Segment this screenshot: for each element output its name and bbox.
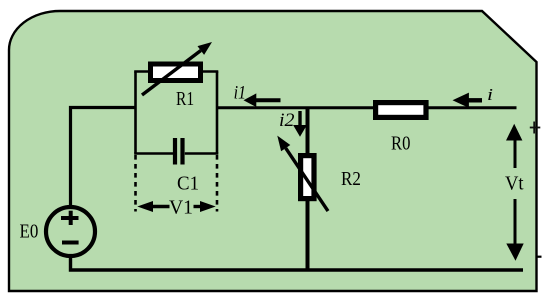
svg-text:R0: R0	[391, 132, 410, 154]
svg-text:R1: R1	[176, 88, 194, 110]
svg-text:V1: V1	[169, 196, 193, 218]
svg-text:E0: E0	[20, 220, 39, 242]
svg-text:i: i	[487, 85, 493, 104]
svg-text:i2: i2	[279, 110, 295, 131]
svg-text:Vt: Vt	[505, 173, 524, 195]
svg-text:i1: i1	[234, 82, 247, 103]
svg-text:C1: C1	[177, 173, 199, 195]
svg-text:R2: R2	[341, 168, 361, 190]
